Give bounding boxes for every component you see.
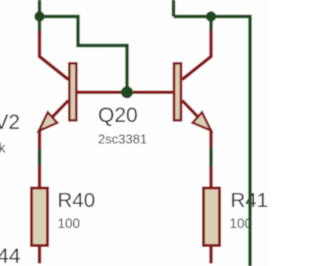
transistor Q20 right half: emitter diagonal bbox=[182, 101, 211, 131]
wire: left emitter net segment (green) bbox=[38, 149, 41, 165]
transistor Q20 right half: base bar bbox=[174, 63, 181, 120]
wire: right emitter pin stub (red) bbox=[209, 131, 212, 149]
svg-text:V2: V2 bbox=[0, 111, 20, 134]
wire: R40 top pin stub (red) bbox=[38, 165, 41, 187]
wire: top-right vertical entering from top edge bbox=[172, 0, 175, 17]
wire: right emitter net segment (green) bbox=[209, 148, 212, 166]
transistor Q20 left half: emitter diagonal bbox=[39, 101, 69, 132]
transistor Q20 right half: emitter arrow bbox=[193, 112, 211, 130]
wire: R41 bottom pin stub bbox=[209, 246, 212, 264]
transistor Q20 right half: collector pin bbox=[182, 31, 211, 80]
junction dot at base tap bbox=[121, 86, 133, 98]
svg-text:R40: R40 bbox=[58, 189, 96, 212]
wire: top horizontal to right edge drop bbox=[174, 17, 251, 266]
svg-text:Q20: Q20 bbox=[98, 104, 138, 127]
wire: green stub above right collector bbox=[209, 17, 212, 32]
transistor Q20 left half: collector pin bbox=[40, 31, 69, 80]
junction dot top-right bbox=[206, 11, 216, 21]
wire: R40 bottom pin stub bbox=[38, 246, 41, 264]
wire: top-left vertical supply net bbox=[38, 0, 41, 33]
transistor Q20 left half: base bar bbox=[69, 63, 76, 120]
svg-text:2sc3381: 2sc3381 bbox=[98, 132, 147, 147]
wire: R41 top pin stub (red) bbox=[209, 166, 212, 187]
resistor R40 body bbox=[32, 188, 48, 246]
svg-text:R44: R44 bbox=[0, 245, 21, 266]
resistor R41 body bbox=[204, 188, 220, 246]
wire: left emitter pin stub (red) bbox=[38, 131, 41, 149]
svg-text:100: 100 bbox=[58, 216, 81, 231]
transistor Q20 left half: emitter arrow bbox=[39, 112, 57, 131]
wire: from top-left junction right, stepped down to base tap bbox=[40, 17, 128, 93]
junction dot top-left bbox=[34, 11, 44, 21]
transistor Q20 shared base wire bbox=[78, 91, 173, 94]
